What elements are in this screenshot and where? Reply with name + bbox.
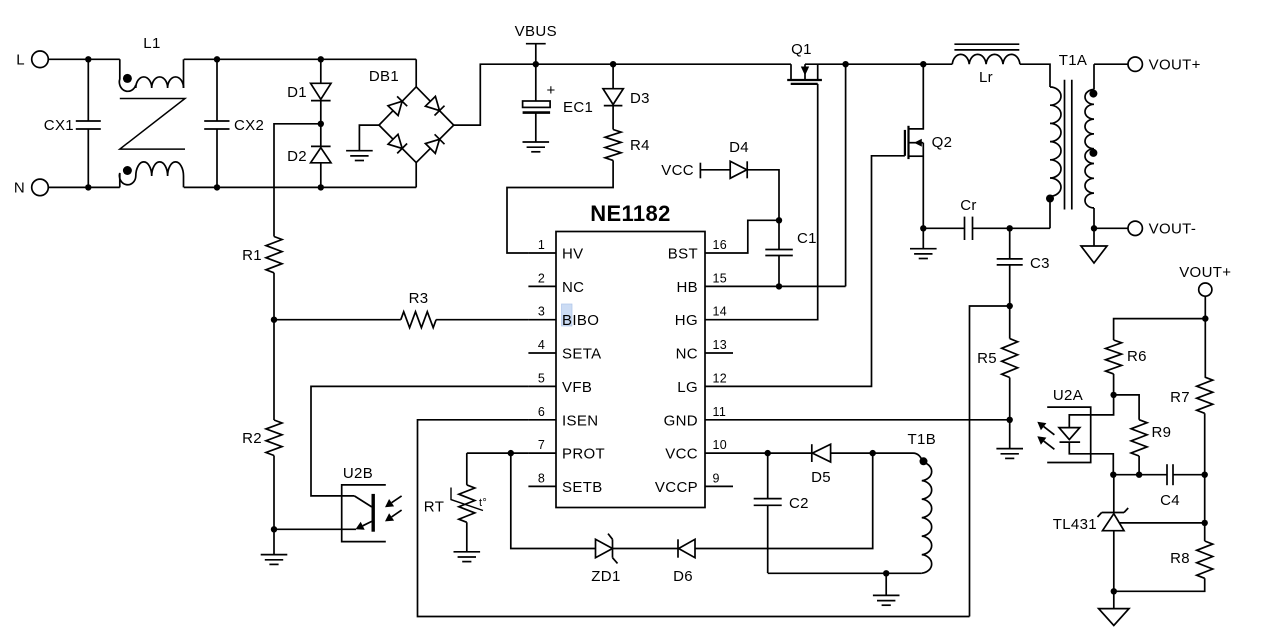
svg-text:13: 13: [713, 338, 728, 352]
pin 10 VCC: [665, 438, 733, 463]
wire: [1138, 456, 1140, 475]
wire REF: [1120, 522, 1205, 524]
svg-text:R7: R7: [1170, 389, 1190, 406]
wire: [274, 528, 356, 530]
svg-text:VCC: VCC: [661, 162, 694, 179]
pin 5 VFB: [528, 371, 592, 396]
wire: [359, 125, 379, 151]
wire: [274, 124, 321, 237]
pin 14 HG: [675, 305, 733, 330]
wire: [184, 58, 416, 60]
node: [1091, 225, 1097, 231]
svg-text:VCC: VCC: [665, 446, 698, 463]
pin 13 NC: [676, 338, 733, 363]
node: [271, 317, 277, 323]
capacitor C2: [754, 453, 809, 573]
svg-text:TL431: TL431: [1053, 516, 1097, 533]
wire: [48, 186, 120, 188]
terminal: [1199, 283, 1212, 296]
transformer T1B: [908, 431, 937, 573]
svg-text:SETB: SETB: [562, 479, 603, 496]
wire: [922, 228, 924, 248]
resistor R2: [242, 420, 282, 456]
wire: [273, 320, 275, 420]
svg-text:D6: D6: [673, 568, 693, 585]
diode D6: [673, 539, 695, 585]
svg-text:10: 10: [713, 438, 728, 452]
wire LG: [733, 156, 905, 387]
svg-text:CX2: CX2: [234, 117, 264, 134]
resistor R7: [1170, 377, 1213, 413]
wire: [1204, 296, 1206, 318]
node: [85, 56, 91, 191]
svg-text:HG: HG: [675, 312, 698, 329]
svg-text:14: 14: [713, 305, 728, 319]
wire: [747, 170, 779, 221]
node: [1202, 472, 1208, 478]
svg-text:VOUT-: VOUT-: [1149, 221, 1197, 238]
wire: [1049, 196, 1051, 228]
thermistor RT: [424, 453, 487, 552]
wire: [1204, 319, 1206, 378]
pin 15 HB: [676, 271, 733, 296]
svg-text:D1: D1: [287, 84, 307, 101]
svg-text:Q2: Q2: [932, 134, 953, 151]
terminal VOUT-: [1128, 221, 1196, 238]
wire: [970, 306, 1010, 617]
capacitor CX2: [204, 59, 264, 187]
svg-text:U2A: U2A: [1053, 387, 1083, 404]
svg-text:VBUS: VBUS: [515, 23, 557, 40]
diode D4: [729, 139, 749, 178]
inductor Lr: [952, 44, 1020, 86]
pin 1 HV: [528, 238, 583, 263]
wire: [1204, 413, 1206, 474]
diode D1: [287, 59, 331, 124]
svg-text:ZD1: ZD1: [591, 568, 620, 585]
node: [1202, 520, 1208, 526]
svg-text:NE1182: NE1182: [590, 201, 670, 226]
node: [883, 570, 889, 576]
wire: [1009, 420, 1011, 449]
optocoupler U2B: [342, 465, 402, 542]
svg-text:5: 5: [538, 371, 545, 385]
bridge rectifier DB1: [369, 68, 454, 163]
svg-text:D2: D2: [287, 148, 307, 165]
ground: [523, 142, 550, 152]
pin 8 SETB: [528, 471, 602, 496]
wire: [695, 453, 873, 548]
wire: [768, 572, 887, 574]
ground chassis: [1081, 246, 1107, 263]
wire: [1010, 227, 1050, 229]
resistor R1: [242, 237, 282, 273]
wire HG: [733, 84, 818, 320]
wire: [273, 273, 275, 320]
svg-text:PROT: PROT: [562, 446, 605, 463]
pin 16 BST: [668, 238, 733, 263]
ground chassis: [1099, 609, 1129, 626]
wire: [415, 163, 417, 188]
wire: [1093, 64, 1095, 89]
pin 9 VCCP: [655, 471, 733, 496]
pin 12 LG: [677, 371, 733, 396]
node: [1007, 417, 1013, 423]
wire: [273, 529, 275, 554]
node: [776, 217, 782, 223]
node: [271, 526, 277, 532]
capacitor C1: [765, 220, 817, 286]
wire: [1093, 208, 1095, 228]
wire VFB: [311, 386, 528, 496]
wire: [1114, 319, 1206, 340]
node: [318, 121, 324, 127]
wire HB: [733, 285, 846, 287]
svg-text:NC: NC: [676, 346, 698, 363]
node: [1111, 588, 1117, 594]
wire: [1094, 227, 1128, 229]
wire: [507, 160, 613, 253]
svg-text:R8: R8: [1170, 550, 1190, 567]
wire: [1113, 474, 1167, 476]
ground: [261, 555, 288, 565]
wire: [511, 453, 596, 548]
wire BST: [733, 220, 779, 253]
wire: [885, 573, 887, 595]
optocoupler U2A: [1037, 387, 1090, 463]
svg-text:VCCP: VCCP: [655, 479, 698, 496]
svg-text:VOUT+: VOUT+: [1149, 56, 1201, 73]
svg-text:Q1: Q1: [791, 41, 812, 58]
wire: [273, 456, 275, 530]
svg-text:R4: R4: [630, 137, 650, 154]
node: [776, 283, 782, 289]
terminal L: [16, 51, 48, 69]
svg-text:N: N: [14, 180, 25, 197]
transformer T1A: [1046, 52, 1097, 210]
resistor R8: [1170, 541, 1213, 578]
svg-text:Cr: Cr: [960, 197, 977, 214]
svg-text:LG: LG: [677, 379, 698, 396]
svg-text:T1A: T1A: [1059, 52, 1088, 69]
node: [610, 61, 616, 67]
wire PROT: [467, 452, 529, 454]
wire VCC10: [733, 452, 768, 454]
node: [1007, 225, 1013, 231]
node: [920, 225, 926, 231]
svg-text:VOUT+: VOUT+: [1179, 264, 1231, 281]
svg-text:6: 6: [538, 405, 545, 419]
ground: [910, 249, 937, 259]
capacitor CX1: [44, 59, 101, 187]
svg-text:C1: C1: [797, 230, 817, 247]
ground: [996, 449, 1023, 459]
net VOUT+: [1179, 264, 1231, 281]
node: [1110, 472, 1116, 478]
wire: [831, 452, 913, 454]
node: [842, 61, 848, 67]
IC U1 NE1182 box: [556, 201, 705, 508]
transistor Q1: [787, 41, 822, 84]
svg-text:12: 12: [713, 371, 728, 385]
svg-text:2: 2: [538, 271, 545, 285]
wire: [1204, 475, 1206, 541]
capacitor Cr: [923, 197, 1009, 240]
wire: [1069, 395, 1113, 428]
svg-text:EC1: EC1: [563, 99, 593, 116]
svg-text:D5: D5: [811, 469, 831, 486]
pin 11 GND: [664, 405, 733, 430]
svg-text:T1B: T1B: [908, 431, 937, 448]
wire: [1093, 228, 1095, 246]
wire: [845, 64, 847, 286]
wire: [1069, 442, 1113, 475]
ground: [873, 595, 900, 605]
capacitor C3: [997, 228, 1050, 306]
svg-text:t°: t°: [479, 497, 487, 509]
node: [214, 56, 220, 191]
svg-text:R5: R5: [977, 350, 997, 367]
wire: [1114, 395, 1140, 420]
svg-text:9: 9: [713, 471, 720, 485]
resistor R9: [1131, 420, 1171, 456]
wire: [48, 58, 120, 60]
node: [1202, 315, 1208, 321]
BIBO selection highlight: [562, 304, 573, 326]
svg-text:CX1: CX1: [44, 117, 74, 134]
wire: [613, 548, 679, 550]
wire: [436, 319, 528, 321]
ground: [346, 151, 373, 161]
shunt regulator TL431: [1053, 475, 1128, 592]
svg-text:L: L: [16, 52, 25, 69]
node: [318, 184, 324, 190]
pin 3 BIBO: [528, 305, 599, 330]
wire: [454, 64, 536, 125]
svg-text:RT: RT: [424, 499, 444, 516]
svg-text:ISEN: ISEN: [562, 412, 598, 429]
diode D5: [811, 444, 831, 486]
wire: [768, 452, 812, 454]
svg-text:11: 11: [713, 405, 727, 419]
resistor R5: [977, 306, 1018, 420]
svg-text:DB1: DB1: [369, 68, 399, 85]
svg-text:D3: D3: [630, 90, 650, 107]
svg-text:R6: R6: [1127, 348, 1147, 365]
svg-text:7: 7: [538, 438, 545, 452]
svg-text:HV: HV: [562, 246, 584, 263]
wire GND11: [733, 419, 1010, 421]
pin 2 NC: [528, 271, 584, 296]
diode D2: [287, 124, 331, 188]
svg-text:3: 3: [538, 305, 545, 319]
svg-text:BIBO: BIBO: [562, 312, 599, 329]
svg-text:1: 1: [538, 238, 545, 252]
svg-text:U2B: U2B: [343, 465, 373, 482]
inductor L1: [119, 35, 185, 187]
svg-text:C4: C4: [1160, 492, 1180, 509]
wire: [886, 572, 922, 574]
svg-text:L1: L1: [143, 35, 160, 52]
node: [508, 450, 514, 456]
node: [870, 450, 876, 456]
svg-text:4: 4: [538, 338, 545, 352]
svg-text:Lr: Lr: [979, 69, 993, 86]
zener ZD1: [591, 534, 620, 585]
svg-text:NC: NC: [562, 279, 584, 296]
pin 7 PROT: [528, 438, 605, 463]
net VCC: [661, 162, 730, 179]
wire VBUS rail: [536, 63, 791, 65]
svg-text:C2: C2: [789, 495, 809, 512]
wire: [184, 186, 416, 188]
terminal N: [14, 179, 48, 197]
svg-text:SETA: SETA: [562, 346, 601, 363]
net VBUS: [515, 23, 557, 64]
resistor R4: [605, 130, 650, 161]
svg-text:16: 16: [713, 238, 728, 252]
node: [1110, 392, 1116, 398]
wire: [1114, 578, 1205, 591]
terminal VOUT+: [1128, 56, 1201, 73]
svg-text:R1: R1: [242, 247, 262, 264]
node: [1007, 303, 1013, 309]
svg-text:+: +: [547, 82, 556, 99]
node: [920, 61, 926, 67]
svg-text:R9: R9: [1152, 424, 1172, 441]
resistor R6: [1106, 340, 1147, 374]
svg-text:8: 8: [538, 471, 545, 485]
wire: [1094, 63, 1128, 65]
svg-text:VFB: VFB: [562, 379, 592, 396]
node: [533, 61, 539, 67]
svg-text:HB: HB: [676, 279, 698, 296]
svg-text:R2: R2: [242, 430, 262, 447]
svg-text:D4: D4: [729, 139, 749, 156]
wire: [1020, 64, 1050, 87]
ground: [454, 552, 481, 562]
svg-text:15: 15: [713, 271, 728, 285]
resistor R3: [401, 290, 436, 328]
capacitor C4: [1160, 464, 1180, 509]
svg-text:R3: R3: [409, 290, 429, 307]
svg-text:BST: BST: [668, 246, 698, 263]
transistor Q2: [905, 64, 952, 228]
node: [765, 450, 771, 456]
wire: [1173, 474, 1205, 476]
wire ISEN: [418, 420, 970, 617]
wire: [415, 59, 417, 87]
svg-text:C3: C3: [1030, 255, 1050, 272]
wire: [1113, 374, 1115, 395]
capacitor EC1: [523, 64, 594, 142]
pin 6 ISEN: [528, 405, 598, 430]
wire BIBO: [274, 319, 401, 321]
node: [1136, 472, 1142, 478]
wire: [1113, 591, 1115, 608]
wire HB rail: [805, 63, 952, 65]
diode D3: [603, 64, 650, 129]
svg-text:GND: GND: [664, 412, 698, 429]
pin 4 SETA: [528, 338, 601, 363]
node: [318, 56, 324, 62]
